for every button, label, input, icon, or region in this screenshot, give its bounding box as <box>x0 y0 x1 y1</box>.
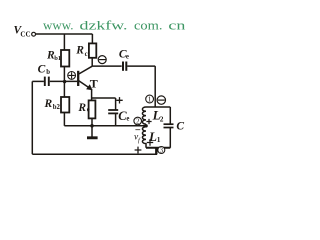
transistor T base bar <box>77 71 79 86</box>
svg-text:b: b <box>46 69 50 76</box>
wire Cb left <box>32 80 44 82</box>
svg-text:2: 2 <box>160 114 164 123</box>
junction dot coil tap <box>145 124 148 127</box>
capacitor Cb plates <box>45 77 49 86</box>
transistor emitter diagonal <box>79 81 92 89</box>
inductor L1 coil <box>142 124 146 148</box>
label Rb2 <box>44 98 61 111</box>
wire node3 stub <box>155 148 157 155</box>
svg-text:CC: CC <box>20 30 30 38</box>
wire bottom feedback <box>32 153 157 155</box>
node 3 circled <box>158 147 165 155</box>
svg-text:com.: com. <box>134 18 163 33</box>
wire Rc top stub <box>91 34 93 43</box>
terminal Vcc <box>32 32 36 36</box>
svg-text:e: e <box>87 107 90 114</box>
wire top rail <box>36 33 93 35</box>
wire tank bottom <box>146 147 170 149</box>
svg-text:b2: b2 <box>53 104 61 111</box>
svg-text:e: e <box>126 116 129 123</box>
wire Rb2 bottom <box>63 113 65 126</box>
label L2 <box>152 107 164 123</box>
resistor Rb2 <box>61 97 69 113</box>
resistor Re <box>89 100 96 118</box>
svg-text:C: C <box>176 121 184 133</box>
polarity circled minus at node 1 <box>157 96 165 104</box>
wire base <box>50 80 77 82</box>
plus sign below vf <box>135 147 142 154</box>
capacitor Ce bypass plates <box>108 110 118 113</box>
svg-text:2: 2 <box>136 118 140 126</box>
svg-text:b1: b1 <box>54 55 61 62</box>
polarity circled plus at base <box>68 72 76 80</box>
wire bypass cap upper <box>115 98 117 110</box>
wire tank top <box>146 106 170 108</box>
wire ground rail <box>64 125 146 127</box>
polarity circled minus at collector <box>98 56 106 64</box>
svg-text:c: c <box>85 51 88 58</box>
svg-text:dzkfw.: dzkfw. <box>80 18 128 33</box>
svg-text:1: 1 <box>157 135 161 144</box>
label L1 <box>148 129 161 144</box>
plus sign at coil bottom <box>147 139 153 145</box>
svg-text:R: R <box>77 102 86 114</box>
transistor emitter arrow <box>86 84 92 90</box>
wire C branch upper <box>169 107 171 124</box>
node 1 circled <box>146 95 154 104</box>
svg-text:L: L <box>148 129 157 144</box>
ground bar <box>87 136 98 139</box>
label Cb <box>38 64 51 76</box>
wire collector vertical <box>91 58 93 66</box>
label vf <box>134 133 141 144</box>
wire Re bottom <box>91 118 93 125</box>
svg-text:C: C <box>38 64 46 76</box>
svg-text:R: R <box>44 98 53 110</box>
svg-text:e: e <box>126 54 129 61</box>
label Vcc <box>14 25 31 39</box>
wire Rb1 drop <box>63 34 65 50</box>
wire left feedback vertical <box>31 81 33 154</box>
wire emitter vertical <box>91 89 93 101</box>
label Rb1 <box>46 49 61 61</box>
plus sign at coil tap <box>146 119 151 124</box>
resistor Rb1 <box>61 50 69 67</box>
transistor collector diagonal <box>79 66 92 74</box>
wire C branch lower <box>169 128 171 148</box>
wire emitter tap <box>92 97 116 99</box>
svg-text:cn: cn <box>168 18 186 33</box>
wire collector to Ce <box>92 65 122 67</box>
plus sign at bypass cap <box>116 97 122 103</box>
ground stem <box>91 126 93 137</box>
junction dot emitter-rail <box>90 124 94 128</box>
capacitor Ce coupling plates <box>123 62 126 71</box>
wire tank feed vertical <box>154 66 156 107</box>
svg-text:T: T <box>90 77 98 91</box>
resistor Rc <box>89 43 96 57</box>
node 2 circled <box>134 117 142 125</box>
label Ce coupling <box>119 49 129 61</box>
svg-text:3: 3 <box>160 147 164 154</box>
wire bypass cap lower <box>115 113 117 125</box>
svg-text:1: 1 <box>148 95 152 104</box>
minus sign of vf <box>135 129 140 131</box>
junction dot base <box>63 80 66 83</box>
label Rc <box>75 45 87 58</box>
wire Rb1 to Rb2 <box>63 67 65 98</box>
capacitor C tank plates <box>164 124 174 127</box>
label Ce bypass <box>118 109 129 123</box>
svg-text:R: R <box>75 45 84 57</box>
wire Ce to tank corner <box>127 65 155 67</box>
inductor L2 coil <box>142 107 146 124</box>
label Re <box>77 102 89 114</box>
svg-text:www.: www. <box>43 18 74 33</box>
